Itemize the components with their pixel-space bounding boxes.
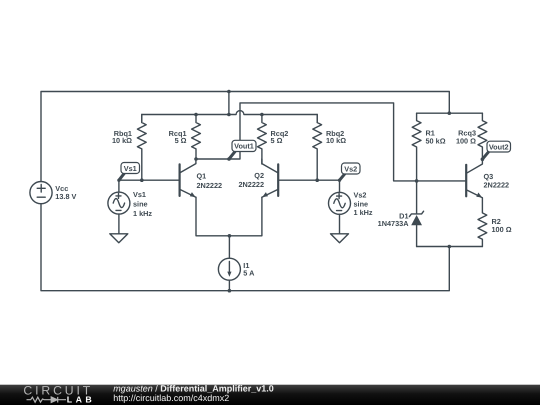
transistor Q2 bar (mirrored) [277, 164, 279, 196]
resistor Rbq1 10k [137, 115, 146, 181]
transistor Q3 bar [465, 165, 467, 197]
svg-text:LAB: LAB [67, 394, 95, 404]
svg-text:Vout2: Vout2 [489, 142, 509, 151]
zener diode D1 triangle [411, 215, 422, 225]
svg-text:100 Ω: 100 Ω [456, 136, 476, 145]
ground under Vs1 [110, 234, 128, 243]
flag Vout1 box [232, 140, 256, 151]
Vs2 small minus [337, 210, 342, 212]
flag Vs2 pointer [340, 174, 345, 180]
flag Vs1 pointer [119, 173, 124, 180]
wire: D1 bottom wire to R2 bottom [417, 246, 483, 248]
svg-text:sine: sine [133, 200, 148, 209]
source Vs2 circle [329, 192, 351, 214]
resistor Rcq1 5ohm [192, 115, 201, 160]
wire: Vs1 bottom lead to ground [118, 214, 120, 234]
Vs1 small plus [116, 193, 121, 198]
source Vs1 circle [108, 192, 130, 214]
svg-text:http://circuitlab.com/c4xdmx2: http://circuitlab.com/c4xdmx2 [113, 393, 229, 403]
svg-text:100 Ω: 100 Ω [492, 225, 512, 234]
svg-text:5 Ω: 5 Ω [175, 136, 187, 145]
svg-text:5 Ω: 5 Ω [271, 136, 283, 145]
Vs1 small minus [116, 209, 121, 211]
Q3 emitter arrow [476, 193, 482, 198]
Vcc minus sign [37, 196, 45, 198]
Q2 collector diagonal [262, 159, 277, 172]
I1 arrow shaft [228, 262, 230, 273]
flag Vout1 pointer [229, 151, 235, 159]
resistor R1 50k [412, 113, 421, 181]
wire: link from top rail down to resistor rail [228, 92, 230, 115]
svg-text:Vs2: Vs2 [344, 164, 357, 173]
voltage source Vcc circle [30, 182, 52, 204]
svg-text:1N4733A: 1N4733A [378, 219, 410, 228]
wire: Vout1 node up and across to Q3 base (node Vout1) [196, 103, 465, 181]
svg-text:10 kΩ: 10 kΩ [112, 136, 132, 145]
Q2 emitter arrow [262, 192, 268, 197]
svg-text:Vs2: Vs2 [354, 190, 367, 199]
Q2 emitter diagonal [262, 190, 277, 198]
current source I1 circle [218, 258, 240, 280]
ground under Vs2 [331, 234, 349, 243]
wire: emitter join down to I1 [228, 236, 230, 258]
svg-text:Vout1: Vout1 [234, 142, 254, 151]
wire: resistor top rail with hop over Vout1 vertical [142, 111, 317, 123]
svg-text:Vs1: Vs1 [124, 164, 137, 173]
logo circuit squiggle: wire, resistor zigzag, diode, wire [27, 397, 67, 403]
svg-text:2N2222: 2N2222 [197, 181, 223, 190]
wire: R1 top to Rcq3 top [417, 112, 483, 114]
flag Vout2 pointer [482, 152, 488, 159]
svg-text:50 kΩ: 50 kΩ [426, 136, 446, 145]
resistor Rcq2 5ohm [258, 115, 267, 165]
flag Vs1 box [121, 163, 140, 174]
wire: Vs1 node to Q1 base [119, 180, 179, 192]
svg-text:2N2222: 2N2222 [238, 180, 264, 189]
wire: Q2 base to Vs2 node [279, 180, 340, 192]
D1 cathode bar with zener hooks [409, 211, 423, 216]
wire: Vcc bottom lead, bottom rail, right rise to D1/R2 bottom [41, 204, 449, 291]
svg-text:Q1: Q1 [197, 171, 207, 180]
svg-text:5 A: 5 A [243, 269, 255, 278]
Vcc plus sign [37, 185, 45, 193]
svg-text:mgausten / Differential_Amplif: mgausten / Differential_Amplifier_v1.0 [113, 383, 274, 393]
Q3 emitter diagonal [467, 190, 482, 198]
I1 arrowhead [227, 272, 231, 277]
flag Vout2 box [487, 141, 511, 152]
Vs2 sine wave [334, 199, 345, 208]
Q1 collector diagonal [181, 159, 196, 172]
svg-text:sine: sine [354, 199, 369, 208]
svg-text:1 kHz: 1 kHz [133, 209, 152, 218]
svg-text:2N2222: 2N2222 [484, 180, 510, 189]
resistor R2 100ohm [478, 198, 487, 247]
wire: emitter join Q1-Q2 [196, 197, 262, 236]
svg-text:13.8 V: 13.8 V [55, 192, 76, 201]
wire: Vs2 bottom lead to ground [339, 214, 341, 234]
wire: Vcc top lead, top rail, right drop to R1/Rcq3 [41, 92, 449, 182]
Vs2 small plus [337, 194, 342, 199]
wire: I1 bottom lead [228, 280, 230, 291]
svg-text:10 kΩ: 10 kΩ [326, 136, 346, 145]
resistor Rbq2 10k [313, 115, 322, 181]
resistor Rcq3 100ohm [478, 113, 487, 159]
flag Vs2 box [342, 163, 361, 174]
Q1 emitter arrow [190, 192, 196, 197]
svg-text:1 kHz: 1 kHz [354, 208, 373, 217]
Vs1 sine wave [113, 199, 124, 208]
transistor Q1 bar [179, 164, 181, 196]
svg-text:Q2: Q2 [254, 171, 264, 180]
svg-text:Vs1: Vs1 [133, 190, 146, 199]
Q1 emitter diagonal [181, 190, 196, 198]
Q3 collector diagonal [467, 159, 482, 173]
D1 vertical lead [416, 181, 418, 247]
